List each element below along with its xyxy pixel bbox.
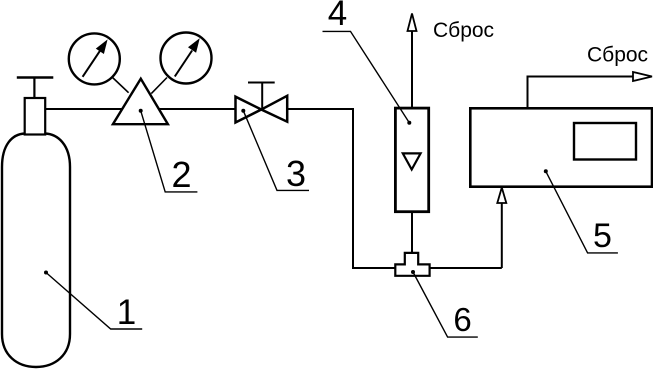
svg-text:Сброс: Сброс xyxy=(587,44,648,67)
svg-text:5: 5 xyxy=(593,217,612,255)
svg-text:1: 1 xyxy=(117,293,136,332)
svg-text:4: 4 xyxy=(328,0,347,33)
svg-text:3: 3 xyxy=(286,153,306,194)
svg-text:Сброс: Сброс xyxy=(433,19,494,42)
svg-text:2: 2 xyxy=(171,154,191,195)
svg-text:6: 6 xyxy=(453,301,471,338)
